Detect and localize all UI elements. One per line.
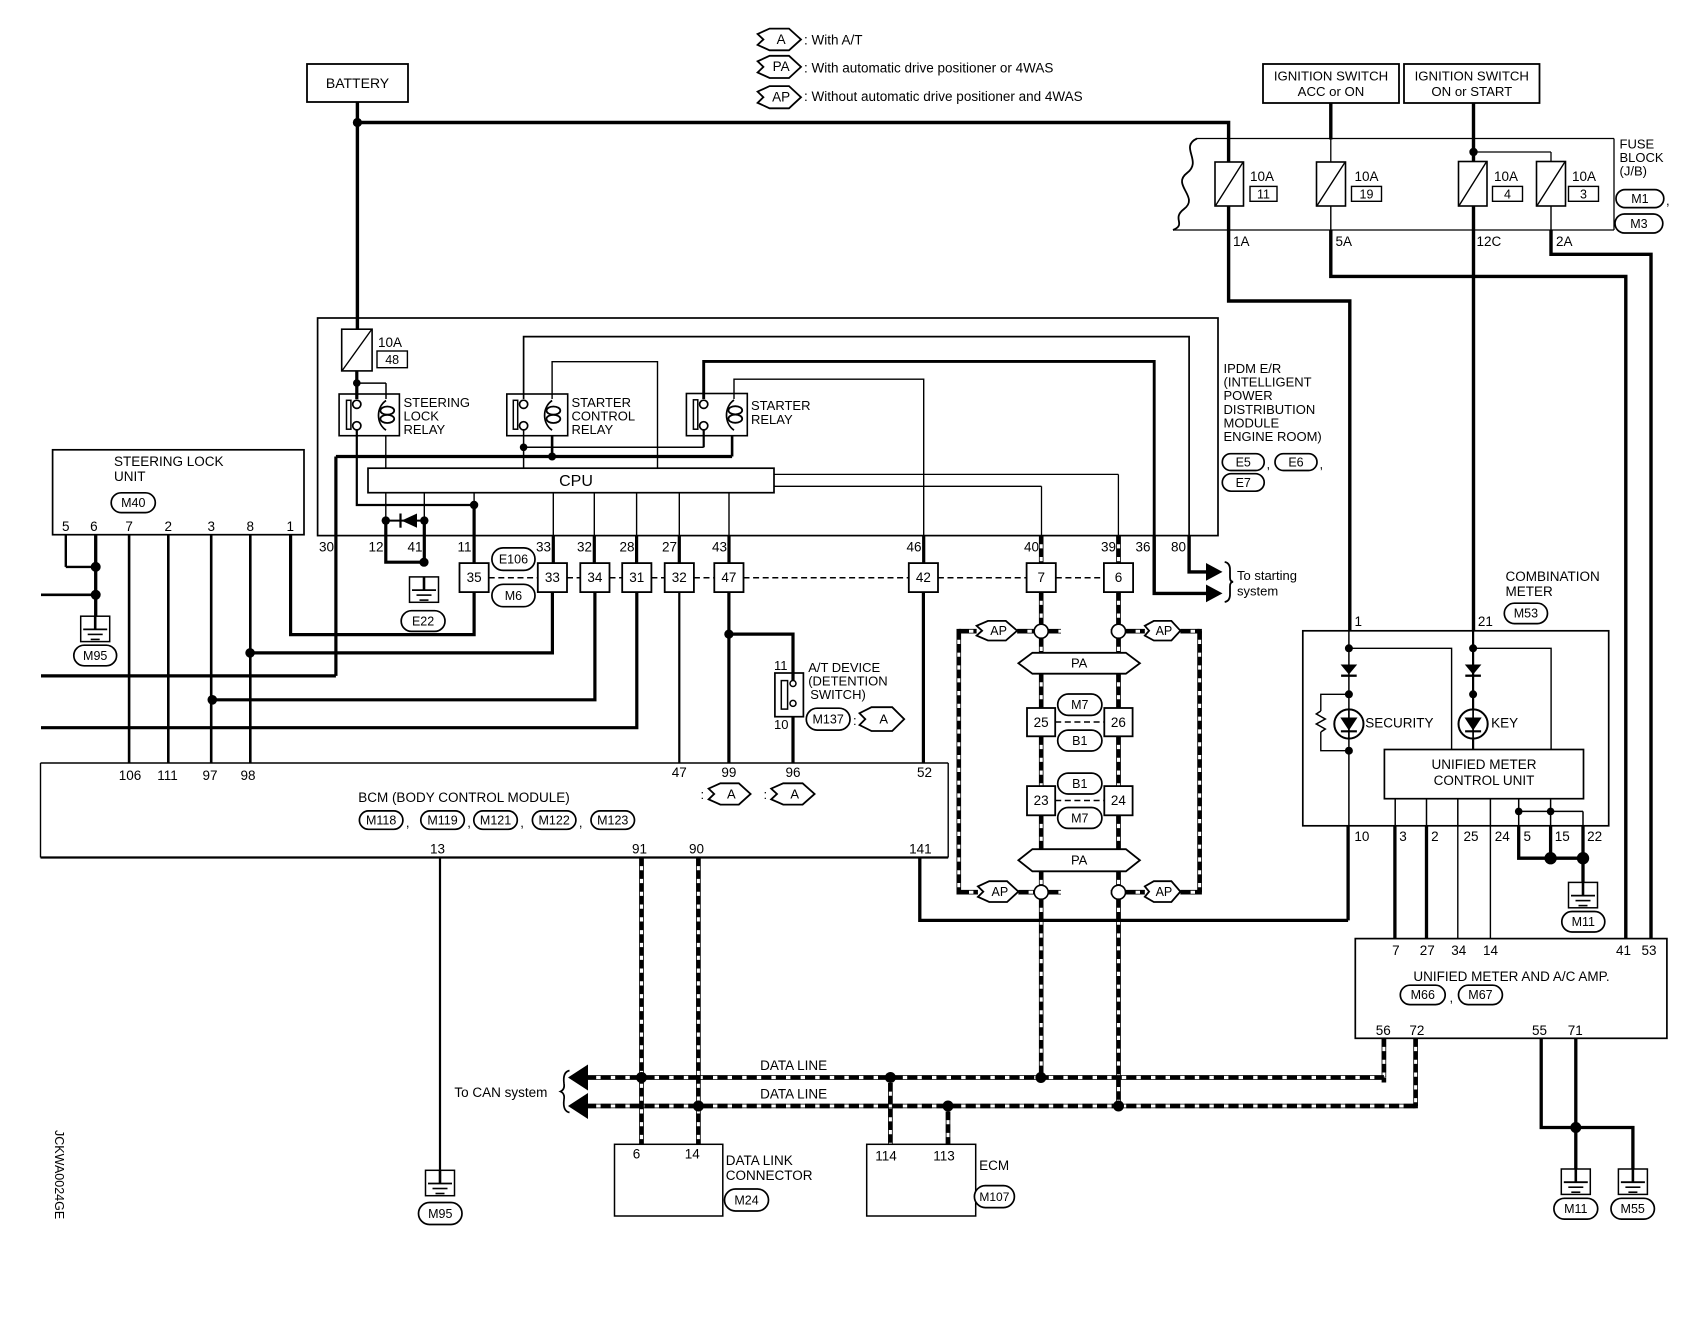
svg-text:14: 14 [685, 1147, 701, 1162]
svg-text:22: 22 [1587, 829, 1602, 844]
svg-text:AP: AP [990, 624, 1007, 638]
svg-text:M7: M7 [1071, 811, 1088, 825]
svg-text:3: 3 [1399, 829, 1407, 844]
svg-text:42: 42 [916, 570, 931, 585]
svg-text:RELAY: RELAY [751, 412, 793, 427]
svg-text:32: 32 [577, 540, 592, 555]
svg-text:21: 21 [1478, 614, 1493, 629]
svg-text:A: A [727, 786, 736, 801]
svg-text:10A: 10A [1355, 169, 1379, 184]
svg-text:10A: 10A [1572, 169, 1596, 184]
svg-text:1A: 1A [1233, 234, 1250, 249]
svg-text:ECM: ECM [979, 1158, 1009, 1173]
svg-text:41: 41 [1616, 943, 1631, 958]
svg-text:24: 24 [1495, 829, 1511, 844]
svg-text:system: system [1237, 584, 1278, 599]
svg-text:31: 31 [629, 570, 644, 585]
svg-text:M1: M1 [1631, 192, 1648, 206]
svg-text:METER: METER [1506, 584, 1554, 599]
svg-text:2A: 2A [1556, 234, 1573, 249]
svg-text:IGNITION SWITCH: IGNITION SWITCH [1415, 69, 1529, 84]
svg-text:UNIFIED METER: UNIFIED METER [1431, 757, 1536, 772]
svg-text:AP: AP [772, 90, 790, 105]
svg-text:43: 43 [712, 540, 727, 555]
svg-text:46: 46 [906, 540, 921, 555]
svg-text:12C: 12C [1477, 234, 1502, 249]
svg-text:23: 23 [1034, 793, 1049, 808]
svg-text:CONNECTOR: CONNECTOR [726, 1168, 813, 1183]
svg-text:33: 33 [545, 570, 560, 585]
svg-text:M6: M6 [505, 589, 522, 603]
svg-text:M123: M123 [597, 813, 628, 827]
svg-text:KEY: KEY [1491, 716, 1518, 731]
svg-text:27: 27 [1420, 943, 1435, 958]
svg-text:28: 28 [619, 540, 634, 555]
svg-text:56: 56 [1376, 1023, 1391, 1038]
svg-text:30: 30 [319, 540, 334, 555]
svg-text:CPU: CPU [559, 473, 593, 490]
svg-text:M3: M3 [1630, 217, 1647, 231]
svg-text:,: , [1320, 457, 1324, 472]
svg-text::: : [764, 787, 768, 802]
svg-text:14: 14 [1483, 943, 1499, 958]
svg-text:25: 25 [1464, 829, 1479, 844]
svg-text:52: 52 [917, 765, 932, 780]
svg-text:M121: M121 [480, 813, 511, 827]
svg-text:DATA LINE: DATA LINE [760, 1058, 827, 1073]
svg-text:PA: PA [1071, 853, 1088, 868]
svg-text:5: 5 [62, 519, 70, 534]
svg-text:1: 1 [287, 519, 295, 534]
svg-text:E7: E7 [1236, 476, 1251, 490]
svg-text::: : [853, 713, 857, 728]
svg-text:AP: AP [992, 885, 1009, 899]
svg-text:,: , [520, 815, 524, 830]
svg-text:RELAY: RELAY [404, 422, 446, 437]
svg-text:E6: E6 [1288, 455, 1303, 469]
svg-text:A: A [777, 32, 786, 47]
svg-text:11: 11 [774, 658, 788, 673]
svg-text:141: 141 [909, 842, 932, 857]
svg-text:25: 25 [1034, 715, 1049, 730]
svg-text:M119: M119 [427, 813, 457, 827]
svg-text:97: 97 [202, 768, 217, 783]
svg-text:To CAN system: To CAN system [454, 1085, 547, 1100]
svg-text:47: 47 [672, 765, 687, 780]
svg-text:ON or START: ON or START [1431, 84, 1512, 99]
svg-text:AP: AP [1156, 885, 1173, 899]
svg-text:COMBINATION: COMBINATION [1506, 569, 1600, 584]
svg-text:6: 6 [90, 519, 98, 534]
svg-text:A: A [790, 786, 799, 801]
svg-text:10: 10 [1354, 829, 1369, 844]
svg-text:,: , [579, 815, 583, 830]
svg-text:3: 3 [207, 519, 215, 534]
svg-text::: : [701, 787, 705, 802]
svg-text:7: 7 [1037, 570, 1045, 585]
svg-text:M53: M53 [1514, 607, 1538, 621]
svg-text:36: 36 [1135, 540, 1150, 555]
svg-text:BCM (BODY CONTROL MODULE): BCM (BODY CONTROL MODULE) [358, 790, 570, 805]
svg-text:5A: 5A [1336, 234, 1353, 249]
svg-text:8: 8 [247, 519, 255, 534]
svg-text:DATA LINK: DATA LINK [726, 1153, 793, 1168]
svg-text:2: 2 [1431, 829, 1439, 844]
svg-text:JCKWA0024GE: JCKWA0024GE [52, 1130, 66, 1219]
svg-text:53: 53 [1642, 943, 1657, 958]
svg-text:AP: AP [1156, 624, 1173, 638]
svg-text:55: 55 [1532, 1023, 1547, 1038]
svg-text:6: 6 [633, 1147, 641, 1162]
svg-text:M24: M24 [734, 1193, 758, 1207]
svg-text:RELAY: RELAY [572, 422, 614, 437]
svg-text:33: 33 [536, 540, 551, 555]
svg-text:99: 99 [721, 765, 736, 780]
svg-text:10A: 10A [1494, 169, 1518, 184]
svg-text:IGNITION SWITCH: IGNITION SWITCH [1274, 69, 1388, 84]
svg-text:B1: B1 [1072, 734, 1087, 748]
svg-text:34: 34 [587, 570, 603, 585]
svg-text:10A: 10A [378, 335, 402, 350]
svg-text:114: 114 [875, 1149, 897, 1164]
svg-text:A: A [879, 711, 888, 726]
svg-text:UNIT: UNIT [114, 469, 146, 484]
svg-text:24: 24 [1111, 793, 1127, 808]
svg-text:7: 7 [1392, 943, 1400, 958]
svg-text:26: 26 [1111, 715, 1126, 730]
svg-text:41: 41 [407, 540, 422, 555]
svg-text:19: 19 [1360, 187, 1374, 201]
svg-text:27: 27 [662, 540, 677, 555]
svg-text:B1: B1 [1072, 777, 1087, 791]
svg-text:47: 47 [721, 570, 736, 585]
svg-text:M55: M55 [1621, 1202, 1645, 1216]
svg-text:M122: M122 [539, 813, 570, 827]
svg-text:ENGINE ROOM): ENGINE ROOM) [1224, 429, 1322, 444]
svg-text:111: 111 [157, 768, 178, 783]
svg-text:96: 96 [785, 765, 800, 780]
svg-text:10: 10 [774, 717, 788, 732]
svg-text:1: 1 [1355, 614, 1363, 629]
svg-text:80: 80 [1171, 540, 1186, 555]
svg-text:M107: M107 [979, 1190, 1009, 1204]
svg-text:ACC or ON: ACC or ON [1298, 84, 1365, 99]
svg-text:M11: M11 [1564, 1202, 1587, 1216]
svg-text:M67: M67 [1468, 988, 1492, 1002]
svg-text:M11: M11 [1572, 915, 1595, 929]
svg-text:10A: 10A [1250, 169, 1274, 184]
svg-text:12: 12 [368, 540, 383, 555]
svg-text:3: 3 [1580, 187, 1587, 201]
svg-text:6: 6 [1115, 570, 1123, 585]
svg-text:98: 98 [240, 768, 255, 783]
svg-text:39: 39 [1101, 540, 1116, 555]
svg-text:4: 4 [1504, 187, 1511, 201]
svg-text:To starting: To starting [1237, 568, 1297, 583]
svg-text:E5: E5 [1236, 455, 1251, 469]
svg-text:,: , [1267, 457, 1271, 472]
svg-text:M66: M66 [1411, 988, 1435, 1002]
svg-text:STARTER: STARTER [751, 398, 810, 413]
svg-text:113: 113 [933, 1149, 955, 1164]
svg-text:91: 91 [632, 842, 647, 857]
svg-text:34: 34 [1451, 943, 1467, 958]
svg-text:35: 35 [467, 570, 482, 585]
svg-text:(J/B): (J/B) [1620, 164, 1647, 179]
svg-text:32: 32 [672, 570, 687, 585]
svg-text:BATTERY: BATTERY [326, 75, 390, 91]
svg-text:106: 106 [119, 768, 142, 783]
svg-text:M118: M118 [366, 813, 396, 827]
svg-text:: With automatic drive positio: : With automatic drive positioner or 4WA… [804, 61, 1053, 76]
svg-text:STEERING LOCK: STEERING LOCK [114, 454, 224, 469]
svg-text:SECURITY: SECURITY [1365, 716, 1433, 731]
svg-text:15: 15 [1555, 829, 1570, 844]
svg-text:48: 48 [385, 353, 399, 367]
svg-text:M137: M137 [813, 712, 844, 726]
svg-text:90: 90 [689, 842, 704, 857]
svg-text:,: , [1450, 990, 1454, 1005]
svg-text:E106: E106 [499, 552, 528, 566]
svg-text:DATA LINE: DATA LINE [760, 1087, 827, 1102]
svg-text:M7: M7 [1071, 698, 1088, 712]
svg-text:CONTROL UNIT: CONTROL UNIT [1434, 773, 1535, 788]
svg-text:UNIFIED METER AND A/C AMP.: UNIFIED METER AND A/C AMP. [1413, 969, 1609, 984]
svg-text:2: 2 [165, 519, 173, 534]
svg-text:11: 11 [457, 540, 471, 555]
svg-text:,: , [467, 815, 471, 830]
svg-text:PA: PA [1071, 656, 1088, 671]
svg-text:,: , [1666, 193, 1670, 208]
svg-text:,: , [406, 815, 410, 830]
svg-text:M95: M95 [83, 649, 107, 663]
svg-text:5: 5 [1524, 829, 1532, 844]
svg-text:: Without automatic drive posi: : Without automatic drive positioner and… [804, 89, 1083, 104]
svg-text:11: 11 [1257, 187, 1270, 201]
svg-text:72: 72 [1409, 1023, 1424, 1038]
svg-text:SWITCH): SWITCH) [810, 687, 866, 702]
svg-text:71: 71 [1568, 1023, 1583, 1038]
svg-text:E22: E22 [412, 614, 434, 628]
svg-text:7: 7 [125, 519, 133, 534]
svg-text:PA: PA [773, 59, 790, 74]
svg-text:M95: M95 [428, 1207, 452, 1221]
svg-text:40: 40 [1024, 540, 1039, 555]
svg-text:: With A/T: : With A/T [804, 33, 863, 48]
svg-text:13: 13 [430, 842, 445, 857]
svg-text:M40: M40 [121, 496, 145, 510]
